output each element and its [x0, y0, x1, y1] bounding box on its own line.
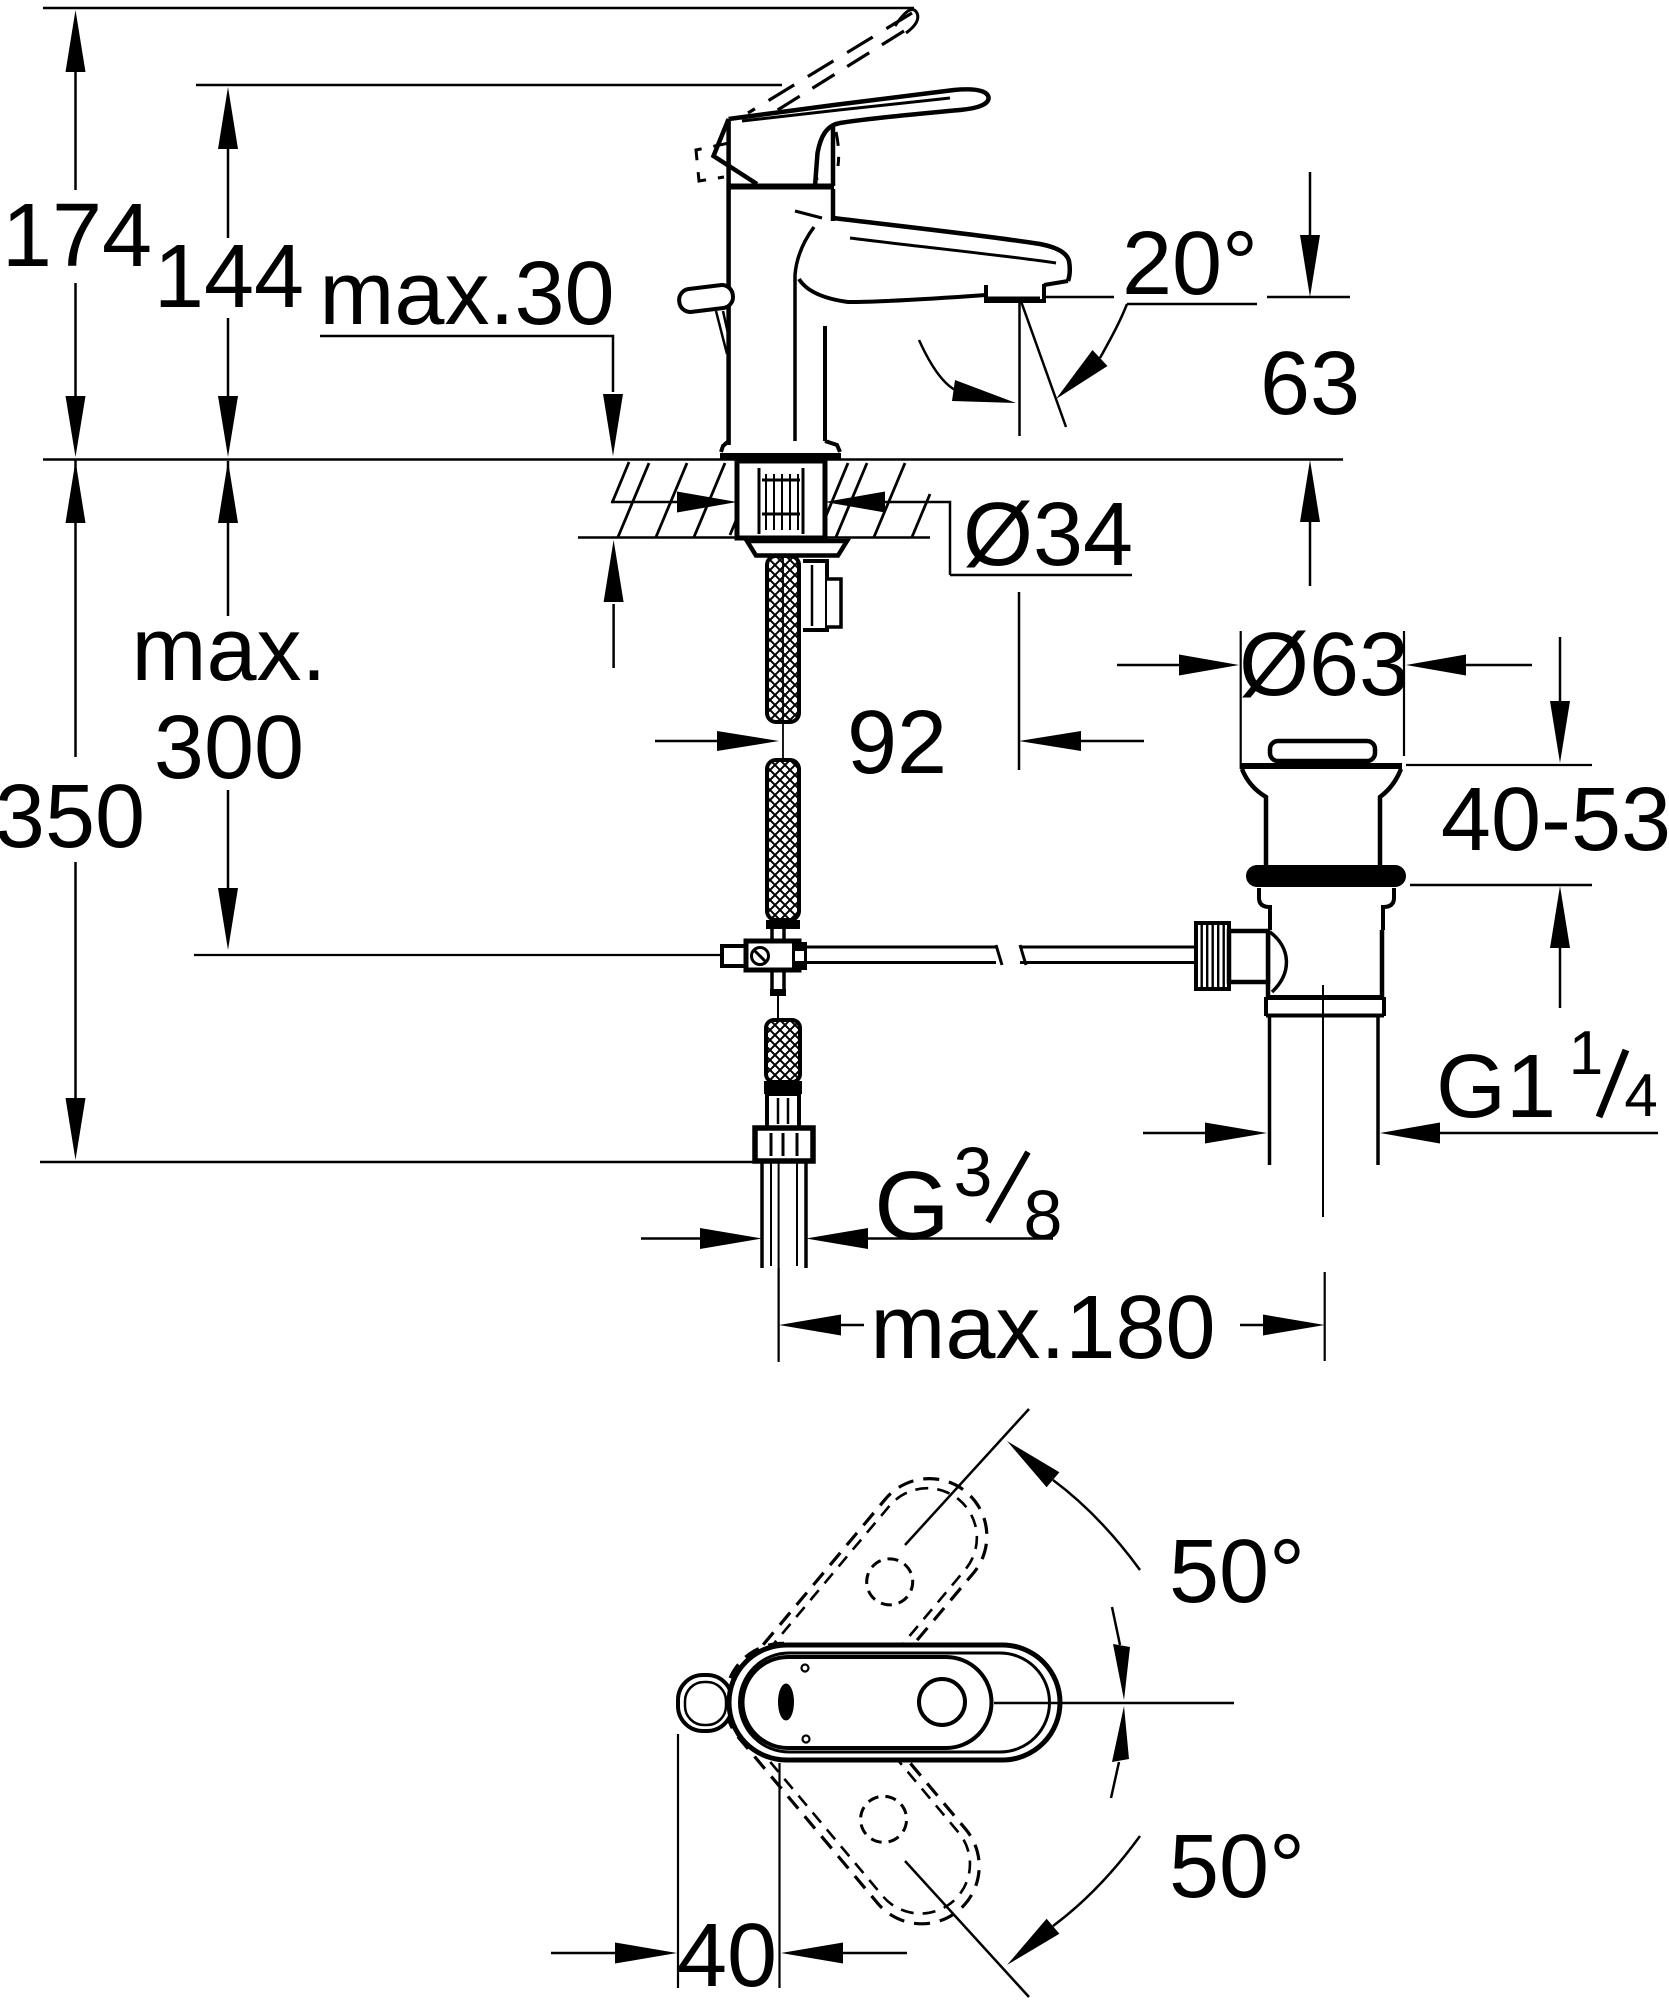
- faucet inner bend line: [795, 227, 814, 441]
- arrow 174 up: [66, 10, 86, 72]
- counter hatching right: [826, 463, 930, 537]
- arrow 350 down at bottom line: [66, 1098, 86, 1160]
- top view left loop outer: [678, 1675, 732, 1731]
- svg-text:Ø34: Ø34: [963, 485, 1133, 585]
- faucet aerator: [986, 284, 1044, 301]
- hose tail center line: [778, 1161, 780, 1362]
- faucet spout inner line: [850, 238, 1056, 263]
- angle 20 slanted line: [1020, 297, 1067, 427]
- counter hatching left: [612, 462, 737, 537]
- angle 20 vertical reference line: [1018, 297, 1021, 436]
- top view inner plate: [743, 1657, 992, 1748]
- svg-text:350: 350: [0, 767, 145, 867]
- dimension 40-53 top tick: [1406, 764, 1592, 766]
- shank through counter: [737, 461, 825, 538]
- top view circle: [919, 1679, 965, 1725]
- dimension 144 vertical line: [227, 148, 230, 400]
- faucet dashed lever back blob: [696, 143, 729, 181]
- dimension G1-1/4 right arrow: [1440, 1132, 1658, 1135]
- dimension 40-53 up arrow: [1559, 948, 1562, 1008]
- dimension Ø63 left arrow: [1117, 664, 1179, 667]
- upper supply hose braided: [767, 556, 799, 722]
- dimension max180 left extension: [777, 1268, 779, 1361]
- arrow max.30 down at counter top: [603, 394, 623, 456]
- faucet dashed lever tip cap: [895, 10, 918, 33]
- svg-text:max.180: max.180: [870, 1278, 1215, 1378]
- clamp right bracket: [792, 942, 807, 970]
- spout axis extension line: [1018, 592, 1021, 770]
- svg-text:174: 174: [2, 186, 152, 286]
- bottom reference line 350 level: [40, 1161, 754, 1164]
- horizontal popup rod right section: [805, 945, 1002, 965]
- counter top line: [43, 458, 1343, 461]
- hose lower ferrule: [764, 1081, 802, 1094]
- arrow max300 down at rod: [218, 888, 238, 950]
- faucet popup knob pin: [716, 311, 729, 354]
- dimension 350 line lower: [74, 460, 77, 1098]
- dimension Ø34 right arrow: [885, 502, 950, 575]
- faucet dashed raised lever inner edge: [760, 31, 904, 121]
- angle 50 upper arc arrow: [1053, 1480, 1140, 1570]
- angle 20 right arc arrow: [1100, 304, 1127, 358]
- angle 50 bowtie lower: [1111, 1762, 1119, 1798]
- top view rotated axis line upper: [905, 1409, 1029, 1545]
- popup pin lower: [772, 970, 784, 990]
- arrow 144 up: [218, 87, 238, 149]
- hose hex nut: [755, 1128, 813, 1161]
- faucet lever inner line: [742, 98, 950, 121]
- drain plug cap: [1270, 741, 1375, 761]
- popup rod clamp block: [746, 941, 799, 970]
- faucet dashed raised lever outer edge: [748, 13, 912, 113]
- shank threaded rod interior: [759, 468, 803, 534]
- dimension 40-53 down arrow: [1559, 637, 1562, 701]
- dimension 63 top tick: [1267, 296, 1350, 299]
- dimension G3/8 left arrow: [641, 1237, 700, 1240]
- faucet spout crease: [795, 211, 822, 218]
- svg-text:50°: 50°: [1169, 1522, 1305, 1622]
- popup pin upper: [772, 928, 784, 944]
- flange under counter: [747, 541, 847, 556]
- svg-text:50°: 50°: [1169, 1817, 1305, 1917]
- top view dashed handle upper: [710, 1455, 1011, 1782]
- hose side fitting: [803, 561, 827, 630]
- horizontal popup rod after break: [1020, 945, 1196, 965]
- faucet body right edge upper: [831, 189, 836, 221]
- svg-text:Ø63: Ø63: [1239, 615, 1409, 715]
- faucet popup knob: [678, 284, 734, 313]
- dimension max180 right extension: [1324, 1272, 1326, 1361]
- leader max.30: [320, 336, 613, 392]
- faucet neck right edge: [831, 126, 836, 186]
- faucet body right edge lower: [823, 326, 827, 441]
- svg-text:G: G: [874, 1151, 949, 1260]
- counter bottom line: [578, 536, 930, 539]
- dimension G1-1/4 left arrow: [1143, 1132, 1205, 1135]
- angle 50 bowtie upper: [1112, 1607, 1120, 1645]
- dimension 92 right arrow: [1081, 740, 1144, 743]
- arrow max300 up at counter: [218, 461, 238, 523]
- svg-text:1: 1: [1569, 1019, 1603, 1088]
- drain body neck: [1259, 888, 1394, 930]
- faucet spout top edge: [833, 218, 1070, 281]
- dimension 174 vertical line: [74, 70, 77, 400]
- clamp screw: [752, 948, 769, 965]
- angle 50 lower arc arrow: [1053, 1836, 1140, 1926]
- extension line 144 level: [196, 84, 782, 87]
- faucet cap left edge: [714, 119, 758, 184]
- lower supply hose braided: [766, 1020, 800, 1082]
- hose tail tube: [762, 1161, 806, 1268]
- dimension 63 up arrow: [1309, 522, 1312, 586]
- drain coupling ring: [1266, 995, 1384, 1000]
- arrow 174 down at counter: [66, 396, 86, 457]
- arrow max.30 up at counter bottom: [612, 604, 615, 668]
- dimension 40-53 bottom tick: [1410, 884, 1592, 887]
- dimension 92 left arrow: [655, 740, 717, 743]
- dimension 40 right arrow: [843, 1952, 907, 1955]
- faucet base flare: [721, 441, 840, 452]
- arrow 144 down at counter: [218, 396, 238, 457]
- dimension 40 left arrow: [551, 1952, 615, 1955]
- svg-text:G1: G1: [1436, 1037, 1556, 1137]
- label Ø34 underline: [950, 574, 1132, 577]
- dimension max180 right arrow: [1240, 1324, 1263, 1327]
- drain valve body: [1268, 930, 1382, 997]
- drain funnel sides: [1242, 769, 1401, 866]
- popup rod clamp left cap: [722, 946, 746, 966]
- top view rotated axis line lower: [905, 1861, 1029, 1997]
- hose compression fitting: [767, 1094, 799, 1128]
- svg-text:max.: max.: [131, 600, 326, 700]
- hose center line in gap: [782, 556, 784, 760]
- top view center line right: [994, 1702, 1234, 1705]
- svg-text:20°: 20°: [1122, 214, 1258, 314]
- top view dashed handle lower: [702, 1620, 1003, 1947]
- faucet body left edge: [726, 119, 731, 445]
- spout level line under 20 label: [1127, 303, 1257, 306]
- top view black oval: [778, 1684, 794, 1721]
- faucet spout tip bottom: [1044, 281, 1068, 285]
- dimension G3/8 right arrow: [868, 1237, 1053, 1240]
- faucet dashed lever neck arc: [781, 118, 817, 180]
- extension line top (174 level): [43, 7, 914, 10]
- top view tiny circle lower: [803, 1736, 810, 1743]
- svg-text:300: 300: [154, 698, 304, 798]
- faucet spout underside: [799, 279, 986, 302]
- angle 20 left arc arrow: [919, 340, 957, 391]
- horizontal popup rod left extension: [194, 954, 722, 956]
- top view left loop inner: [685, 1682, 726, 1725]
- top view handle second outline: [740, 1653, 1050, 1752]
- top view handle outer: [729, 1645, 1060, 1760]
- drain pipe center line: [1322, 985, 1324, 1217]
- svg-text:max.30: max.30: [319, 244, 614, 344]
- drain funnel top thick line: [1241, 763, 1402, 769]
- rod adjuster knob knurled: [1196, 923, 1229, 989]
- svg-text:92: 92: [847, 693, 947, 793]
- svg-text:40-53: 40-53: [1441, 770, 1669, 870]
- arrow 350 up at counter: [66, 461, 86, 523]
- dimension Ø63 left extension line: [1240, 631, 1242, 769]
- spout level line left: [1042, 296, 1114, 299]
- top view tiny circle upper: [802, 1665, 809, 1672]
- faucet base thick line: [720, 453, 841, 460]
- svg-text:4: 4: [1624, 1062, 1657, 1129]
- svg-text:3: 3: [954, 1133, 993, 1211]
- faucet cap joint thick line: [729, 184, 834, 190]
- dimension 40 right extension: [778, 1763, 780, 1988]
- dimension 63 down arrow: [1309, 172, 1312, 235]
- dimension 40 left extension: [677, 1734, 679, 1988]
- svg-text:40: 40: [677, 1906, 777, 2000]
- rod adjuster housing: [1229, 931, 1268, 982]
- dimension Ø63 right arrow: [1466, 664, 1532, 667]
- svg-text:8: 8: [1024, 1176, 1063, 1254]
- drain pipe: [1270, 1016, 1379, 1165]
- dimension Ø34 left arrow: [611, 501, 677, 504]
- svg-text:144: 144: [154, 227, 304, 327]
- dimension max180 left arrow: [841, 1324, 864, 1327]
- dimension max.300 line: [227, 461, 230, 890]
- drain o-ring: [1246, 865, 1406, 887]
- faucet dashed lever neck arc 2: [836, 132, 839, 166]
- dimension Ø63 right extension line: [1403, 631, 1405, 756]
- faucet lever solid: [729, 89, 989, 186]
- svg-text:63: 63: [1260, 334, 1360, 434]
